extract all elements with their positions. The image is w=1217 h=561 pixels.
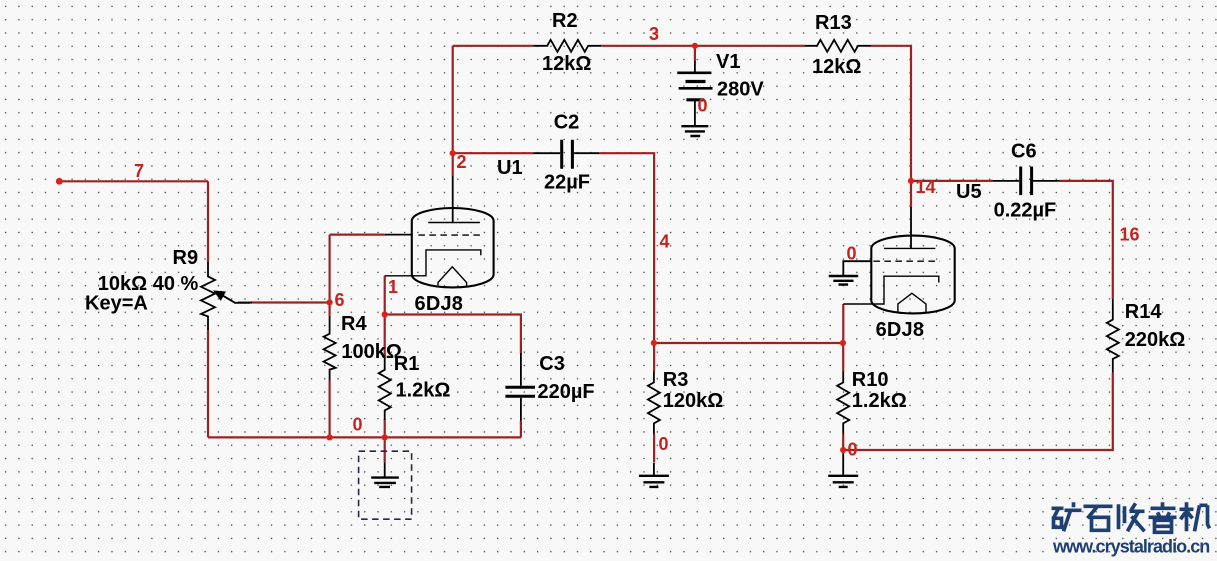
- svg-text:0: 0: [698, 96, 708, 116]
- svg-text:Key=A: Key=A: [85, 293, 148, 315]
- svg-text:280V: 280V: [717, 79, 764, 101]
- svg-text:2: 2: [457, 152, 467, 172]
- svg-text:220kΩ: 220kΩ: [1125, 329, 1186, 351]
- svg-text:1.2kΩ: 1.2kΩ: [852, 390, 907, 412]
- svg-text:U5: U5: [956, 181, 982, 203]
- svg-text:R13: R13: [815, 12, 852, 34]
- svg-text:3: 3: [649, 24, 659, 44]
- svg-text:R14: R14: [1125, 301, 1163, 323]
- svg-text:4: 4: [660, 232, 670, 252]
- svg-text:6DJ8: 6DJ8: [876, 319, 925, 341]
- svg-text:0: 0: [847, 244, 857, 264]
- svg-text:1: 1: [388, 277, 398, 297]
- svg-text:0: 0: [848, 440, 858, 460]
- svg-text:R4: R4: [341, 313, 367, 335]
- svg-text:R9: R9: [173, 247, 199, 269]
- svg-text:22µF: 22µF: [544, 172, 590, 194]
- svg-text:www.crystalradio.cn: www.crystalradio.cn: [1052, 537, 1209, 557]
- svg-text:R3: R3: [663, 369, 689, 391]
- svg-text:14: 14: [916, 177, 936, 197]
- svg-text:12kΩ: 12kΩ: [812, 56, 861, 78]
- svg-text:R2: R2: [552, 10, 578, 32]
- svg-text:C3: C3: [539, 353, 565, 375]
- svg-text:0: 0: [353, 415, 363, 435]
- svg-text:220µF: 220µF: [538, 381, 595, 403]
- svg-text:6DJ8: 6DJ8: [415, 293, 464, 315]
- svg-text:7: 7: [134, 161, 144, 181]
- svg-text:16: 16: [1120, 225, 1140, 245]
- svg-text:C2: C2: [554, 112, 580, 134]
- svg-text:6: 6: [335, 290, 345, 310]
- svg-text:V1: V1: [716, 51, 740, 73]
- svg-text:R1: R1: [394, 353, 420, 375]
- svg-text:1.2kΩ: 1.2kΩ: [396, 380, 451, 402]
- svg-text:0: 0: [659, 434, 669, 454]
- svg-text:120kΩ: 120kΩ: [663, 390, 724, 412]
- svg-text:R10: R10: [852, 369, 889, 391]
- svg-text:C6: C6: [1011, 141, 1037, 163]
- svg-text:0.22µF: 0.22µF: [994, 200, 1057, 222]
- svg-text:12kΩ: 12kΩ: [542, 53, 591, 75]
- svg-text:U1: U1: [497, 157, 523, 179]
